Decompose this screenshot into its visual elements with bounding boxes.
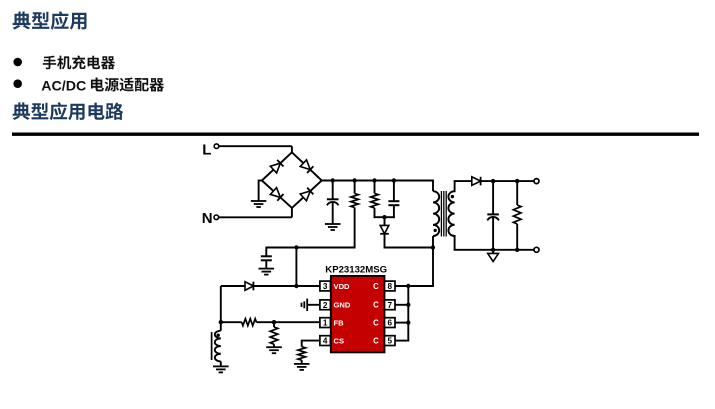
primary phase dot (434, 229, 437, 232)
wire R6 to bottom rail (516, 224, 518, 250)
node rail-R1 (352, 178, 356, 182)
wire VDD-top node down to VDD pin wire (295, 248, 297, 287)
wire aux node down (220, 286, 222, 322)
wire snubber node to D6 (384, 217, 386, 225)
bridge wire bottom-right edge (292, 181, 322, 208)
diode D7 (output rectifier) (472, 177, 481, 186)
wire to C4 (492, 181, 494, 214)
ground (aux) (213, 366, 229, 372)
node rail-R2 (372, 178, 376, 182)
wire rail to C1 (332, 181, 334, 200)
bullet dot 2 (13, 79, 22, 88)
wire bridge left vertex to ground (259, 180, 262, 201)
bullet text 2: 电源适配器 (91, 78, 164, 92)
wire FB node to R4 (273, 322, 275, 327)
node out-R6 (515, 179, 519, 183)
wire D6 to drain node (384, 234, 433, 248)
wire C2 to snubber node (393, 205, 395, 218)
wire C1 to ground (332, 202, 334, 224)
wire rail to primary top (432, 180, 434, 192)
transformer T1 primary winding (433, 191, 439, 236)
node FB (272, 320, 276, 324)
svg-text:N: N (202, 210, 213, 227)
node bottom-R6 (515, 248, 519, 252)
diode D5 (aux rectifier) (245, 282, 253, 291)
terminal L (214, 144, 219, 149)
svg-text:VDD: VDD (334, 282, 351, 291)
node VDD-top (294, 245, 298, 249)
svg-text:GND: GND (334, 301, 351, 310)
secondary ground arrow (488, 253, 499, 261)
wire DC top rail (322, 180, 433, 182)
svg-text:2: 2 (323, 301, 328, 310)
resistor R3 (FB upper) (242, 319, 257, 326)
bridge wire bottom-left edge (262, 181, 292, 208)
node rail-C2 (392, 178, 396, 182)
wire pin 7 stub (395, 304, 409, 306)
wire rail to C2 (393, 181, 395, 202)
secondary phase dot (451, 195, 454, 198)
aux winding phase dot (217, 334, 220, 337)
svg-text:KP23132MSG: KP23132MSG (325, 265, 387, 276)
svg-text:5: 5 (388, 337, 393, 346)
svg-text:C: C (373, 282, 379, 291)
svg-text:C: C (373, 301, 379, 310)
wire snubber bottom (374, 216, 395, 218)
wire C4 to bottom rail (492, 217, 494, 250)
bridge diode D2 (top-right) (300, 160, 313, 173)
IC pin box 2 (GND) (320, 300, 331, 310)
capacitor C1 (bulk electrolytic) (327, 198, 339, 200)
svg-text:FB: FB (334, 318, 345, 327)
resistor R6 (load) (513, 205, 521, 224)
svg-text:4: 4 (323, 337, 328, 346)
terminal output - (534, 247, 539, 252)
wire pin 6 stub (395, 322, 409, 324)
bridge diode D4 (bottom-right) (300, 188, 313, 201)
capacitor C2 (snubber) (388, 200, 399, 202)
right bus wire (407, 286, 409, 341)
wire R1 down and left to VDD cap (266, 208, 355, 248)
resistor R1 (startup) (351, 194, 359, 208)
capacitor C4 (output electrolytic) (487, 213, 499, 215)
wire to R6 (516, 181, 518, 205)
heading 2: 典型应用电路 (13, 102, 124, 120)
IC U1 body (331, 276, 385, 353)
horizontal rule (12, 133, 699, 136)
svg-text:7: 7 (388, 301, 393, 310)
node snubber (382, 215, 386, 219)
bridge wire top-left edge (262, 152, 292, 180)
ground (C3) (259, 269, 275, 275)
svg-text:3: 3 (323, 282, 328, 291)
bridge diode D1 (left-top) (270, 160, 283, 173)
ground (C1) (325, 224, 341, 230)
node pin8-bus (406, 284, 410, 288)
node pin6-bus (406, 320, 410, 324)
wire primary bottom to drain (432, 236, 434, 286)
bridge diode D3 (left-bottom) (270, 188, 283, 201)
wire rail to R1 (354, 181, 356, 194)
IC pin box 6 (385, 318, 396, 328)
bullet text 1: 手机充电器 (43, 56, 115, 70)
node drain-snubber (431, 245, 435, 249)
wire rail to R2 (374, 181, 376, 194)
inductor W3 (aux winding) (215, 331, 221, 362)
wire CS pin 4 (302, 340, 321, 347)
IC pin box 4 (CS) (320, 336, 331, 346)
resistor R2 (snubber) (371, 193, 379, 208)
svg-text:L: L (202, 141, 211, 158)
node rail-C1 (331, 178, 335, 182)
wire R4 to ground (273, 344, 275, 347)
ground (R4) (266, 347, 282, 353)
diode D6 (snubber) (380, 225, 389, 233)
aux winding core bar (211, 332, 213, 360)
node aux-FB (219, 320, 223, 324)
wire to secondary ground (492, 250, 494, 254)
svg-text:C: C (373, 318, 379, 327)
node bottom-C4 (491, 248, 495, 252)
ground (pin 2, rotated) (302, 299, 308, 311)
svg-text:C: C (373, 336, 379, 345)
heading 1: 典型应用 (13, 11, 87, 29)
svg-text:CS: CS (334, 336, 345, 345)
wire pin 5 stub (395, 340, 409, 342)
wire N to bridge (219, 207, 292, 217)
svg-text:6: 6 (388, 319, 393, 328)
wire FB row right part (256, 321, 320, 323)
IC pin box 5 (385, 336, 396, 346)
resistor R4 (FB lower) (270, 327, 278, 344)
resistor R5 (CS sense) (298, 347, 306, 361)
IC pin box 7 (385, 300, 396, 310)
svg-text:1: 1 (323, 319, 328, 328)
wire R5 to ground (301, 360, 303, 364)
wire aux-FB node to aux winding (220, 322, 222, 331)
node VDD (294, 284, 298, 288)
wire secondary top (454, 181, 472, 192)
terminal output + (534, 179, 539, 184)
svg-text:8: 8 (388, 282, 393, 291)
wire R2 to snubber node (374, 208, 376, 218)
wire D7 to output + (481, 180, 534, 182)
IC pin box 3 (VDD) (320, 281, 331, 291)
wire pin 8 to drain (395, 285, 434, 287)
bullet dot 1 (13, 58, 22, 67)
node out-C4 (491, 179, 495, 183)
terminal N (214, 215, 219, 220)
bridge wire top-right edge (292, 152, 322, 180)
wire FB row left part (221, 321, 242, 323)
wire aux to VDD pin 3 (221, 285, 321, 287)
wire secondary bottom (454, 235, 534, 250)
wire GND pin 2 (307, 304, 320, 306)
IC pin box 8 (385, 281, 396, 291)
node pin7-bus (406, 303, 410, 307)
capacitor C3 (VDD) (261, 255, 272, 257)
wire C3 to ground (265, 260, 267, 268)
wire L to bridge (219, 146, 292, 153)
transformer T1 core (441, 191, 446, 237)
svg-text:AC/DC: AC/DC (41, 78, 86, 94)
capacitor C3 (VDD) wire (265, 247, 267, 257)
wire aux winding to ground (220, 361, 222, 366)
ground (R5) (294, 364, 310, 370)
IC pin box 1 (FB) (320, 318, 331, 328)
transformer T1 secondary winding (448, 191, 454, 236)
ground (bridge) (251, 201, 267, 207)
